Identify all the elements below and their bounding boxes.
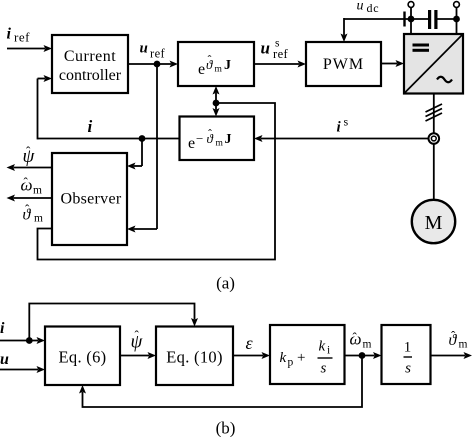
wire i feedback into current controller xyxy=(38,75,53,139)
wire i into observer xyxy=(127,139,142,170)
block e^-theta J xyxy=(180,117,255,161)
wire PWM to inverter xyxy=(381,60,404,67)
wire theta into e^-thetaJ (down arrow) xyxy=(213,103,220,117)
block PWM xyxy=(306,42,381,86)
svg-text:i: i xyxy=(327,345,330,357)
label theta_m hat out xyxy=(449,328,468,351)
label theta_m hat xyxy=(23,202,44,225)
block: Current controller xyxy=(52,35,128,93)
svg-text:Observer: Observer xyxy=(60,191,121,208)
wire u_ref xyxy=(128,61,178,68)
label i^s xyxy=(337,115,349,136)
svg-text:Eq. (10): Eq. (10) xyxy=(166,348,222,367)
svg-text:u: u xyxy=(357,0,364,14)
block Observer xyxy=(52,153,127,245)
svg-text:m: m xyxy=(216,139,224,149)
svg-text:Current: Current xyxy=(64,48,116,65)
current sensor xyxy=(429,133,440,144)
block Eq10 xyxy=(156,327,233,386)
wire epsilon xyxy=(233,352,270,359)
svg-text:m: m xyxy=(363,339,372,351)
svg-text:−: − xyxy=(196,131,203,146)
wire sensor to motor xyxy=(433,144,435,201)
label u_dc xyxy=(357,0,380,15)
svg-text:dc: dc xyxy=(367,1,380,15)
wire u_dc measurement into PWM xyxy=(341,12,412,43)
svg-text:ˆ: ˆ xyxy=(25,202,30,217)
bypass wire i to Eq10 xyxy=(29,304,198,341)
svg-text:e: e xyxy=(198,61,205,78)
svg-text:ˆ: ˆ xyxy=(353,330,358,345)
svg-text:controller: controller xyxy=(59,67,122,84)
svg-text:m: m xyxy=(215,65,223,75)
block Eq6 xyxy=(45,327,120,386)
svg-text:ε: ε xyxy=(246,333,254,353)
svg-text:s: s xyxy=(321,361,327,377)
svg-text:i: i xyxy=(88,117,93,136)
svg-text:Eq. (6): Eq. (6) xyxy=(59,348,107,367)
block 1/s xyxy=(382,325,431,384)
svg-text:i: i xyxy=(0,320,5,337)
wire theta_m feedback loop xyxy=(38,103,276,260)
feedback wire omega to Eq6 xyxy=(79,356,362,408)
wire i into Eq6 xyxy=(0,337,45,344)
svg-text:k: k xyxy=(319,339,326,355)
label omega_m hat (b) xyxy=(350,330,372,351)
label psi hat (b) xyxy=(131,328,144,353)
inverter block xyxy=(404,34,463,94)
label u^s_ref xyxy=(261,38,289,62)
svg-text:s: s xyxy=(344,115,349,129)
block PI controller xyxy=(270,325,345,384)
svg-text:ˆ: ˆ xyxy=(135,328,140,343)
junction dot omega xyxy=(359,352,366,359)
svg-text:(b): (b) xyxy=(216,419,236,437)
svg-text:J: J xyxy=(224,58,231,73)
block e^theta J xyxy=(178,42,254,86)
wire omega_m hat (b) xyxy=(345,352,382,359)
dc link terminal right xyxy=(453,2,460,34)
junction dot u_ref xyxy=(154,61,161,68)
svg-text:ref: ref xyxy=(150,47,166,61)
svg-text:ref: ref xyxy=(273,47,289,61)
junction dot i xyxy=(139,135,146,142)
wire i from rotation box xyxy=(38,138,180,140)
wire theta into e^thetaJ (up arrow) xyxy=(213,86,220,103)
label i_ref xyxy=(7,26,31,45)
svg-text:PWM: PWM xyxy=(323,56,364,73)
wire u_ref^s xyxy=(254,61,306,68)
label psi hat xyxy=(23,144,36,168)
svg-text:ˆ: ˆ xyxy=(208,53,212,67)
svg-text:ˆ: ˆ xyxy=(451,328,456,343)
svg-text:p: p xyxy=(288,357,294,369)
junction dot theta xyxy=(213,100,220,107)
svg-text:(a): (a) xyxy=(216,274,235,293)
svg-text:u: u xyxy=(261,39,270,58)
label u_ref xyxy=(140,41,166,61)
svg-text:ref: ref xyxy=(14,30,30,45)
wire u into Eq6 xyxy=(0,366,45,373)
svg-text:M: M xyxy=(425,212,443,234)
svg-text:ˆ: ˆ xyxy=(24,175,29,190)
svg-text:m: m xyxy=(34,213,43,225)
svg-text:J: J xyxy=(225,132,232,147)
svg-text:1: 1 xyxy=(404,340,412,356)
svg-text:+: + xyxy=(297,350,305,366)
svg-text:s: s xyxy=(405,361,411,377)
wire inverter to sensor with three-phase marks xyxy=(426,94,443,134)
output wire psi hat xyxy=(7,164,53,171)
dc link terminal left xyxy=(408,2,415,34)
junction dot i (b) xyxy=(26,337,33,344)
wire i_ref into current controller xyxy=(7,45,52,52)
svg-text:k: k xyxy=(280,350,287,366)
svg-text:ˆ: ˆ xyxy=(208,127,212,141)
label omega_m hat xyxy=(21,175,43,197)
wire i^s xyxy=(254,135,429,142)
output wire theta_m hat xyxy=(431,352,473,359)
svg-text:u: u xyxy=(140,41,148,57)
svg-text:ˆ: ˆ xyxy=(26,144,31,159)
wire u_ref into observer xyxy=(127,64,157,233)
output wire omega hat xyxy=(7,195,53,202)
capacitor C dc-link xyxy=(411,10,457,29)
svg-text:e: e xyxy=(188,135,195,152)
svg-text:m: m xyxy=(459,339,468,351)
svg-text:i: i xyxy=(7,26,12,43)
svg-text:u: u xyxy=(0,351,9,368)
svg-text:m: m xyxy=(33,185,42,197)
motor M xyxy=(412,200,455,243)
wire psi hat (b) xyxy=(120,352,156,359)
